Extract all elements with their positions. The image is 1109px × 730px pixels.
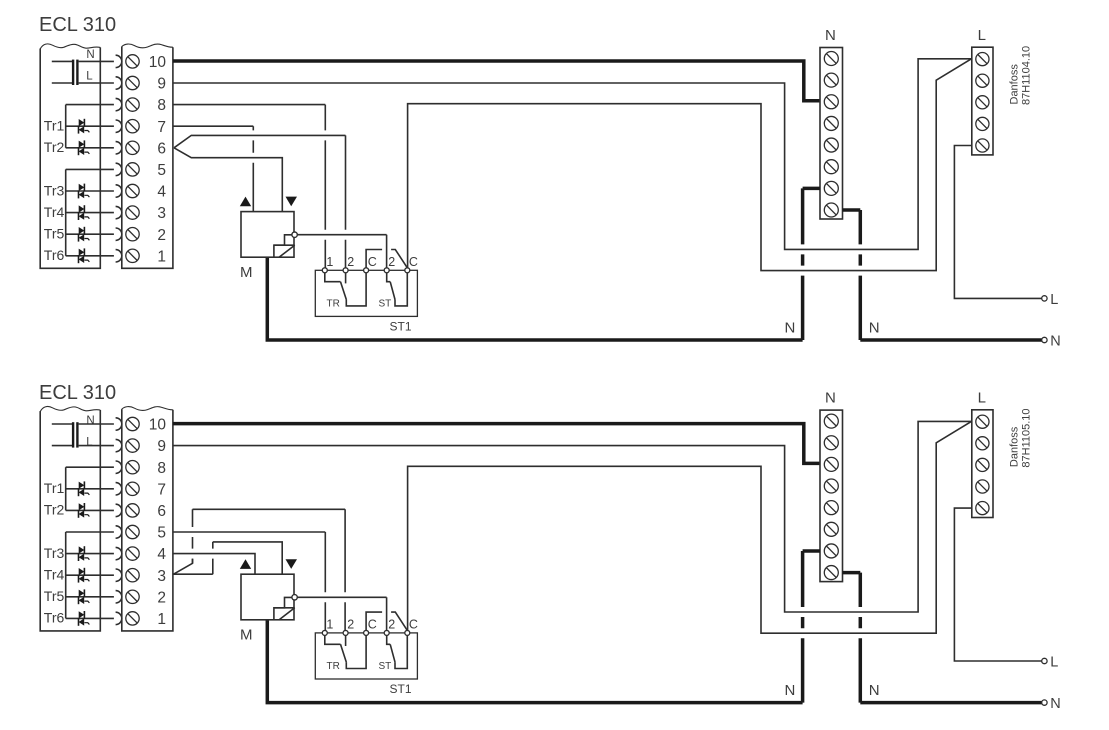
- thick N wire motor to N block screw 7 (top): [267, 257, 802, 340]
- svg-text:10: 10: [149, 54, 167, 71]
- triac Tr6 (top): [66, 248, 114, 263]
- ST1 terminal 2 circle (top): [343, 268, 348, 273]
- svg-text:2: 2: [157, 589, 166, 606]
- svg-text:N: N: [86, 415, 94, 427]
- N block screw 3 (top): [824, 95, 838, 109]
- svg-text:Tr1: Tr1: [44, 118, 65, 134]
- svg-text:C: C: [368, 255, 377, 269]
- L block screw 1 (top): [976, 53, 989, 66]
- ST1 terminal 2 circle (top): [384, 268, 389, 273]
- ST1 switch ST (bottom): [387, 635, 408, 668]
- svg-text:5: 5: [157, 525, 166, 542]
- triac Tr2 (bottom): [66, 503, 114, 518]
- arrow close direction (bottom): [286, 559, 298, 569]
- svg-text:M: M: [240, 627, 253, 644]
- wire terminal 8 to ST1 terminal 1 (top): [173, 104, 325, 106]
- terminal 3 screw (top): [126, 206, 139, 219]
- svg-text:4: 4: [157, 546, 166, 563]
- svg-text:TR: TR: [327, 299, 340, 310]
- wire bus to terminal 8 (top): [66, 104, 114, 106]
- gear motor M box (bottom): [241, 574, 294, 620]
- ST1 terminal C circle (top): [364, 268, 369, 273]
- terminal 4 connector arc (bottom): [116, 547, 122, 559]
- terminal 6 connector arc (bottom): [116, 504, 122, 516]
- triac Tr4 (top): [66, 205, 114, 220]
- terminal 10 screw (bottom): [126, 417, 139, 430]
- svg-text:N: N: [1050, 334, 1060, 350]
- ST1 terminal C circle (bottom): [364, 630, 369, 635]
- triac Tr3 (top): [66, 184, 114, 199]
- terminal 5 screw (top): [126, 163, 139, 176]
- N block screw 5 (bottom): [824, 501, 838, 515]
- svg-text:N: N: [869, 319, 880, 336]
- svg-text:9: 9: [157, 438, 166, 455]
- wire transformer to terminal 9 (bottom): [79, 445, 114, 447]
- terminal 8 connector arc (bottom): [116, 461, 122, 473]
- transformer primary leads (top): [52, 61, 72, 83]
- N block screw 8 (bottom): [824, 566, 838, 580]
- svg-text:N: N: [1050, 696, 1060, 712]
- motor feedback node circle (bottom): [292, 595, 297, 600]
- wire terminal 9 to L terminal block (bottom): [173, 421, 972, 612]
- N block screw 7 (bottom): [824, 544, 838, 558]
- terminal 9 connector arc (top): [116, 77, 122, 89]
- wire bridge C to C (top): [366, 250, 382, 268]
- terminal 3 connector arc (top): [116, 206, 122, 218]
- triac Tr5 (top): [66, 227, 114, 242]
- svg-text:N: N: [86, 49, 94, 61]
- terminal 2 screw (top): [126, 228, 139, 241]
- svg-text:5: 5: [157, 162, 166, 179]
- svg-text:ST1: ST1: [390, 682, 412, 696]
- svg-text:C: C: [368, 618, 377, 632]
- N block screw 7 (top): [824, 181, 838, 195]
- terminal 8 screw (top): [126, 98, 139, 111]
- svg-text:ECL 310: ECL 310: [39, 382, 116, 404]
- mains L terminal dot (top): [1042, 296, 1047, 301]
- ST1 terminal C circle (bottom): [405, 630, 410, 635]
- wire terminal 10 to N terminal block, thick N line (top): [173, 61, 820, 101]
- wire terminal 4 to motor open input (bottom): [173, 554, 255, 575]
- svg-text:6: 6: [157, 140, 166, 157]
- ST1 switch ST (top): [387, 273, 408, 306]
- mains N terminal dot (top): [1042, 337, 1047, 342]
- terminal 8 screw (bottom): [126, 461, 139, 474]
- terminal 6 screw (top): [126, 141, 139, 154]
- wire transformer to terminal 9 (top): [79, 82, 114, 84]
- svg-text:1: 1: [326, 618, 333, 632]
- wire L block screw 5 to mains L (top): [954, 146, 1041, 299]
- wire bus to terminal 5 (top): [66, 168, 114, 170]
- terminal 4 screw (bottom): [126, 547, 139, 560]
- thick N wire motor to N block screw 7 (bottom): [267, 620, 802, 703]
- triac Tr4 (bottom): [66, 568, 114, 583]
- triac Tr1 (bottom): [66, 481, 114, 496]
- svg-text:Tr2: Tr2: [44, 139, 65, 155]
- ECL terminal strip outline (bottom): [122, 407, 173, 631]
- svg-text:L: L: [86, 71, 93, 83]
- terminal 5 connector arc (top): [116, 163, 122, 175]
- N block screw 2 (top): [824, 73, 838, 87]
- svg-text:Tr3: Tr3: [44, 182, 65, 198]
- svg-text:L: L: [1050, 654, 1058, 670]
- triac bus group 2 (bottom): [65, 532, 67, 618]
- svg-text:87H1105.10: 87H1105.10: [1021, 408, 1033, 467]
- L terminal block (top): [972, 47, 993, 155]
- ECL 310 controller block outline (bottom): [40, 406, 100, 630]
- terminal 1 screw (bottom): [126, 612, 139, 625]
- triac Tr2 (top): [66, 140, 114, 155]
- terminal 9 connector arc (bottom): [116, 439, 122, 451]
- terminal 6 screw (bottom): [126, 504, 139, 517]
- ST1 terminal 2 circle (bottom): [384, 630, 389, 635]
- ST1 terminal 1 circle (top): [322, 268, 327, 273]
- terminal 3 connector arc (bottom): [116, 569, 122, 581]
- svg-text:N: N: [784, 319, 795, 336]
- L block screw 1 (bottom): [976, 415, 989, 428]
- svg-text:M: M: [240, 264, 253, 281]
- svg-text:1: 1: [157, 248, 166, 265]
- svg-text:N: N: [784, 682, 795, 699]
- N block screw 6 (top): [824, 160, 838, 174]
- triac bus group 1 (top): [65, 105, 67, 148]
- svg-text:Tr2: Tr2: [44, 502, 65, 518]
- terminal 9 screw (top): [126, 76, 139, 89]
- triac bus group 1 (bottom): [65, 467, 67, 510]
- terminal 10 connector arc (bottom): [116, 418, 122, 430]
- terminal 2 screw (bottom): [126, 590, 139, 603]
- L terminal block (bottom): [972, 410, 993, 518]
- svg-text:87H1104.10: 87H1104.10: [1021, 46, 1033, 105]
- svg-text:C: C: [409, 618, 418, 632]
- terminal 1 screw (top): [126, 249, 139, 262]
- terminal 2 connector arc (top): [116, 228, 122, 240]
- terminal 7 screw (bottom): [126, 482, 139, 495]
- ST1 terminal C circle (top): [405, 268, 410, 273]
- triac bus group 2 (top): [65, 169, 67, 255]
- svg-text:7: 7: [157, 119, 166, 136]
- wire motor feedback to ST1 terminal 2 of ST (top): [297, 234, 386, 236]
- svg-text:Danfoss: Danfoss: [1008, 64, 1020, 105]
- N terminal block (bottom): [820, 410, 843, 581]
- wire transformer to terminal 10 (top): [79, 60, 114, 62]
- svg-text:Tr6: Tr6: [44, 610, 65, 626]
- svg-text:6: 6: [157, 503, 166, 520]
- svg-text:3: 3: [157, 568, 166, 585]
- wire terminal 6 cable branch upper to ST1 terminal 2 (top): [174, 135, 346, 147]
- L block screw 2 (bottom): [976, 437, 989, 450]
- triac Tr3 (bottom): [66, 546, 114, 561]
- svg-text:L: L: [978, 390, 986, 407]
- svg-text:Danfoss: Danfoss: [1008, 426, 1020, 467]
- svg-text:Tr4: Tr4: [44, 567, 65, 583]
- svg-text:ST: ST: [379, 661, 392, 672]
- terminal 1 connector arc (bottom): [116, 612, 122, 624]
- L block screw 4 (top): [976, 117, 989, 130]
- L block screw 5 (top): [976, 139, 989, 152]
- svg-text:L: L: [978, 27, 986, 44]
- svg-text:8: 8: [157, 460, 166, 477]
- svg-text:Tr6: Tr6: [44, 247, 65, 263]
- wire terminal 9 to L terminal block (top): [173, 59, 972, 250]
- svg-text:9: 9: [157, 76, 166, 93]
- svg-text:2: 2: [388, 618, 395, 632]
- terminal 7 screw (top): [126, 120, 139, 133]
- svg-text:Tr3: Tr3: [44, 545, 65, 561]
- wire transformer to terminal 10 (bottom): [79, 423, 114, 425]
- terminal 8 connector arc (top): [116, 98, 122, 110]
- svg-text:2: 2: [347, 255, 354, 269]
- L block screw 3 (top): [976, 96, 989, 109]
- L block screw 2 (top): [976, 74, 989, 87]
- wire terminal 3 branch lower to motor close input (bottom): [174, 573, 213, 575]
- arrow open direction (top): [240, 197, 251, 207]
- motor feedback node circle (top): [292, 232, 297, 237]
- svg-text:Tr4: Tr4: [44, 204, 65, 220]
- wire bus to terminal 5 (bottom): [66, 531, 114, 533]
- svg-text:N: N: [825, 27, 836, 44]
- transformer primary leads (bottom): [52, 424, 72, 446]
- svg-text:TR: TR: [327, 661, 340, 672]
- ECL terminal strip outline (top): [122, 44, 173, 268]
- N block screw 6 (bottom): [824, 522, 838, 536]
- transformer core bars (bottom): [72, 422, 79, 447]
- wire motor feedback to ST1 terminal 2 of ST (bottom): [297, 596, 386, 598]
- triac Tr1 (top): [66, 119, 114, 134]
- svg-text:1: 1: [326, 255, 333, 269]
- terminal 10 connector arc (top): [116, 55, 122, 67]
- svg-text:2: 2: [388, 255, 395, 269]
- arrow open direction (bottom): [240, 559, 251, 569]
- mains L terminal dot (bottom): [1042, 658, 1047, 663]
- wire L feed from L block to ST1 common C (top): [408, 59, 972, 271]
- N block screw 2 (bottom): [824, 436, 838, 450]
- ST1 terminal 2 circle (bottom): [343, 630, 348, 635]
- svg-text:N: N: [869, 682, 880, 699]
- svg-text:C: C: [409, 255, 418, 269]
- wire terminal 10 to N terminal block, thick N line (bottom): [173, 424, 820, 464]
- ECL 310 controller block outline (top): [40, 44, 100, 268]
- svg-text:L: L: [86, 437, 93, 449]
- motor gear/potentiometer symbol (top): [274, 235, 295, 257]
- mains N terminal dot (bottom): [1042, 700, 1047, 705]
- L block screw 4 (bottom): [976, 480, 989, 493]
- terminal 5 connector arc (bottom): [116, 526, 122, 538]
- svg-text:3: 3: [157, 205, 166, 222]
- svg-text:N: N: [825, 390, 836, 407]
- N block screw 4 (top): [824, 116, 838, 130]
- thick N wire N block screw 8 to mains N (bottom): [843, 571, 861, 575]
- svg-text:2: 2: [157, 227, 166, 244]
- wire terminal 7 to motor open input (top): [173, 125, 253, 127]
- terminal 4 connector arc (top): [116, 185, 122, 197]
- svg-text:ST1: ST1: [390, 320, 412, 334]
- terminal 6 connector arc (top): [116, 142, 122, 154]
- terminal 9 screw (bottom): [126, 439, 139, 452]
- motor gear/potentiometer symbol (bottom): [274, 597, 295, 620]
- transformer core bars (top): [72, 60, 79, 85]
- svg-text:Tr1: Tr1: [44, 480, 65, 496]
- svg-text:ST: ST: [379, 299, 392, 310]
- terminal 2 connector arc (bottom): [116, 591, 122, 603]
- terminal 7 connector arc (bottom): [116, 483, 122, 495]
- L block screw 3 (bottom): [976, 458, 989, 471]
- terminal 3 screw (bottom): [126, 569, 139, 582]
- ST1 terminal 1 circle (bottom): [322, 630, 327, 635]
- wire terminal 3 branch upper to ST1 terminal 2 (bottom): [174, 559, 193, 575]
- svg-text:4: 4: [157, 184, 166, 201]
- wire bus to terminal 8 (bottom): [66, 466, 114, 468]
- N block screw 8 (top): [824, 203, 838, 217]
- svg-text:L: L: [1050, 292, 1058, 308]
- wire L feed from L block to ST1 common C (bottom): [408, 421, 972, 633]
- svg-text:10: 10: [149, 417, 167, 434]
- svg-text:2: 2: [347, 618, 354, 632]
- wire bridge C to C (bottom): [366, 612, 382, 630]
- terminal 1 connector arc (top): [116, 250, 122, 262]
- N block screw 3 (bottom): [824, 457, 838, 471]
- svg-text:Tr5: Tr5: [44, 588, 65, 604]
- wire terminal 5 to ST1 terminal 1 (bottom): [173, 531, 325, 533]
- ST1 auxiliary switch box (top): [315, 270, 417, 316]
- arrow close direction (top): [286, 197, 298, 207]
- N block screw 4 (bottom): [824, 479, 838, 493]
- N block screw 1 (top): [824, 52, 838, 66]
- gear motor M box (top): [241, 212, 294, 258]
- thick N wire N block screw 8 to mains N (top): [843, 208, 861, 212]
- N block screw 5 (top): [824, 138, 838, 152]
- L block screw 5 (bottom): [976, 502, 989, 515]
- svg-text:7: 7: [157, 481, 166, 498]
- ST1 switch TR (top): [325, 273, 366, 306]
- svg-text:1: 1: [157, 611, 166, 628]
- ST1 auxiliary switch box (bottom): [315, 633, 417, 679]
- terminal 4 screw (top): [126, 184, 139, 197]
- triac Tr5 (bottom): [66, 589, 114, 604]
- N block screw 1 (bottom): [824, 414, 838, 428]
- svg-text:8: 8: [157, 97, 166, 114]
- terminal 5 screw (bottom): [126, 525, 139, 538]
- terminal 7 connector arc (top): [116, 120, 122, 132]
- triac Tr6 (bottom): [66, 611, 114, 626]
- svg-text:Tr5: Tr5: [44, 226, 65, 242]
- wire terminal 6 cable branch lower to motor close input (top): [174, 148, 282, 212]
- wire L block screw 5 to mains L (bottom): [954, 508, 1041, 661]
- terminal 10 screw (top): [126, 55, 139, 68]
- N terminal block (top): [820, 48, 843, 220]
- ST1 switch TR (bottom): [325, 635, 366, 668]
- svg-text:ECL 310: ECL 310: [39, 14, 116, 36]
